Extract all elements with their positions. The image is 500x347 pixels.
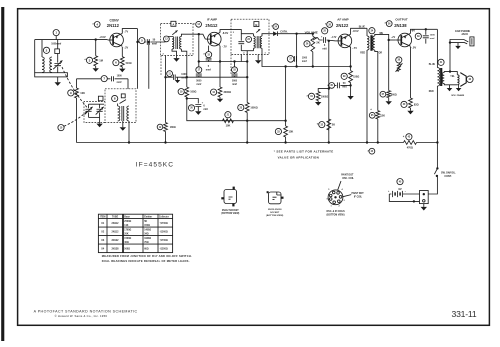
svg-text:2N112: 2N112 [205,23,218,28]
tuning capacitor C1A stem [57,40,59,73]
svg-text:-.7V: -.7V [352,46,357,50]
wire can B primary return [246,51,248,144]
label CATH [280,30,288,33]
svg-text:-.17V: -.17V [331,36,337,39]
svg-text:1000Ω: 1000Ω [250,107,257,110]
thermistor ref [396,57,402,63]
resistor R3 ref [68,90,74,96]
svg-text:5000: 5000 [196,81,202,83]
IF A primary winding [172,37,174,50]
osc coil secondary [127,106,129,121]
IF can A ref box [171,21,176,26]
label SPK FRAME [451,94,464,97]
label OR [379,53,383,55]
svg-text:mmf: mmf [181,78,186,80]
svg-text:9V: 9V [398,187,401,191]
socket 2N112 pins [221,187,235,207]
IF B secondary winding [260,36,262,48]
voltage IF collector [222,31,228,35]
label IF 455KC [136,161,174,168]
svg-text:†1700Ω: †1700Ω [160,240,168,242]
svg-text:X2: X2 [101,230,105,233]
ground R10 [315,101,321,106]
wire AF collector rail [351,28,367,34]
wire osc feed [127,79,129,89]
ground R15 [407,108,413,114]
wire output emitter drop [410,47,412,98]
volume pot ref [304,41,310,47]
label VOLUME [305,30,318,34]
resistor R1 value [99,58,103,62]
capacitor C1 value 1000mmf [51,44,61,46]
svg-text:50: 50 [343,82,346,85]
svg-text:SOCKET: SOCKET [270,212,280,214]
IF A core [176,37,178,50]
svg-text:mmf: mmf [232,84,237,86]
resistor R14 value [391,94,397,97]
capacitor C7 6mfd [195,105,201,107]
IF A primary entry [161,37,173,43]
resistor R17 value [407,147,413,150]
ground C7 [195,107,201,115]
resistor R4 180ohm [164,123,168,144]
IF A secondary top lead [181,34,198,36]
switch SW1 [428,167,438,194]
IF can A shield dash [160,56,162,77]
voltage conv emitter [124,30,129,33]
resistor R13 ref [369,107,375,118]
svg-text:Base: Base [124,217,130,219]
svg-text:-2.0V: -2.0V [99,35,106,39]
svg-text:+: + [388,190,390,193]
stray ref circle [367,148,374,154]
wire antenna top rail [35,39,108,41]
svg-text:B: B [255,23,257,27]
svg-text:500Ω: 500Ω [124,248,130,250]
wire interstage secondary return [375,50,378,111]
IF A primary ground lead [172,49,177,56]
table footnote 1 [102,254,192,258]
battery B1 ref [397,179,403,185]
resistor R9 value [289,130,294,134]
capacitor C3 value [152,39,157,46]
svg-text:PAINT DOT: PAINT DOT [352,192,365,195]
tuning capacitor C1A plates [54,64,61,66]
label PAINT DOT IF COIL [352,192,365,199]
wire secondary to speaker [444,70,457,74]
label IF AMP 2N112 [193,17,218,28]
resistor R2 ref [113,60,119,66]
label RED output [429,91,434,93]
capacitor C6 stem [203,46,208,58]
pin 1 IF A [163,54,165,56]
svg-text:*: * [193,22,195,27]
gang capacitor C1B arrow [85,107,93,115]
svg-text:†1700Ω: †1700Ω [160,223,168,225]
volume pot value [316,40,319,44]
volume pot wiper [313,37,319,40]
gang capacitor C1C stem [99,104,101,117]
svg-text:RED: RED [429,91,434,93]
capacitor C5b lead [233,60,235,77]
wire cap column [148,41,150,89]
voltage output base [391,37,396,39]
svg-text:mmf: mmf [152,43,157,46]
svg-text:+: + [321,35,323,38]
node volume top [312,33,314,35]
svg-text:-.7V: -.7V [124,30,129,33]
resistor R7 10K [223,119,234,123]
capacitor C5b 5000mmf [232,74,238,76]
svg-text:2N112: 2N112 [107,23,120,28]
osc slug arrow [120,100,127,104]
svg-text:2N138: 2N138 [394,23,407,28]
capacitor C6 ref [206,52,212,58]
svg-text:2N138: 2N138 [111,247,119,250]
socket 2N138 body [269,192,282,204]
capacitor C10 value [342,82,347,89]
coil socket pin numbers [327,188,346,207]
label BLUE interstage [359,27,366,29]
svg-text:-.2V: -.2V [391,37,396,39]
battery connector [420,191,429,204]
svg-text:A: A [172,23,174,27]
capacitor C12 value [430,35,436,40]
ground speaker frame [456,88,462,91]
svg-text:560Ω: 560Ω [391,94,397,97]
resistance table [98,214,172,252]
IF B cap lead [240,34,242,51]
capacitor C12 1000mmf [423,36,429,38]
wire battery lower [389,194,419,203]
wire can B cap exit [240,55,242,62]
resistor R4 value [170,126,176,129]
wire main bus [77,142,438,144]
svg-text:X3: X3 [101,239,105,242]
resistor R17 470 [404,141,417,145]
svg-text:2N112-2N138: 2N112-2N138 [268,209,282,211]
folder number 331-11 [452,309,477,319]
tuning gang ref [58,125,64,131]
transistor X2 IF amp [205,32,221,46]
ground R14 [386,98,392,105]
resistor R2 value [126,62,132,65]
svg-text:JACK: JACK [461,33,468,36]
svg-text:RED: RED [360,52,365,54]
IF A secondary winding [180,37,182,50]
svg-text:2N112: 2N112 [112,230,120,233]
resistor R5 value [190,91,196,94]
svg-text:X4: X4 [101,247,105,250]
capacitor C12 ref [415,33,421,39]
svg-text:2500Ω: 2500Ω [124,221,131,223]
svg-text:1700Ω: 1700Ω [124,230,131,232]
svg-text:*: * [203,52,205,57]
wire bypass rail [181,76,248,78]
resistor R2 [120,57,124,67]
capacitor C3 50mmf [147,39,149,45]
wire conv emitter drop [121,47,123,57]
svg-text:100Ω: 100Ω [190,91,196,94]
antenna coil L1 lead [41,40,43,57]
svg-text:2: 2 [163,54,165,56]
svg-text:-.2V: -.2V [124,46,129,49]
svg-text:82Ω: 82Ω [414,104,419,107]
osc coil core [122,106,124,121]
wire interstage primary return [366,50,368,144]
scanner edge bar [1,7,4,341]
capacitor C9 value [322,44,327,51]
label 2N112 socket [221,210,239,215]
resistor R8b 1000ohm [245,103,249,113]
wire conv top to rail [122,29,137,34]
svg-text:Collector: Collector [159,216,169,219]
capacitor C4b ref [167,71,173,77]
node output base [388,39,390,41]
resistor R12 value [332,123,335,127]
ground secondary [447,88,453,91]
svg-text:(BOTTOM VIEW): (BOTTOM VIEW) [266,215,283,217]
svg-text:1000Ω: 1000Ω [321,95,328,98]
svg-text:mmf: mmf [302,61,307,63]
svg-text:OSC. COIL: OSC. COIL [342,178,354,180]
resistor R11 ref [341,73,347,79]
thermistor element [396,63,403,72]
wire gang tops [89,103,105,105]
wire AVC line [186,97,286,122]
resistor R4 ref [157,124,163,130]
resistor R6 ref [211,89,217,95]
wire voice coil ground lead [458,85,460,88]
svg-text:1500Ω: 1500Ω [124,238,131,240]
svg-text:* SEE PARTS LIST FOR ALTERNATE: * SEE PARTS LIST FOR ALTERNATE [274,150,334,154]
svg-text:34Ω: 34Ω [144,232,149,235]
IF B coil ref [246,37,252,43]
svg-text:2N112 SOCKET: 2N112 SOCKET [222,210,239,212]
capacitor C5b value [232,81,238,87]
svg-text:11K: 11K [124,225,128,227]
voltage output emitter [411,45,416,49]
IF A coil ref [164,36,170,42]
ground can B shield [255,55,261,64]
capacitor C5b ref [232,67,238,73]
earphone jack body [470,37,474,46]
interstage secondary winding [373,36,375,50]
resistor R9 ref [275,128,281,134]
svg-text:MEASURED FROM JUNCTION OF R17: MEASURED FROM JUNCTION OF R17 AND ON-OFF… [102,254,192,258]
svg-text:40Ω: 40Ω [124,241,129,244]
ground R2 [119,67,125,72]
IF B secondary top lead [262,34,269,36]
svg-text:SPK. FRAME: SPK. FRAME [451,94,464,97]
svg-text:6: 6 [203,105,205,108]
svg-text:1M: 1M [99,58,103,62]
note alternate parts [274,150,334,160]
socket 2N138 pins [267,191,284,199]
capacitor C6 5mmf [206,58,212,61]
transistor X1 conv [108,33,124,47]
footer title [34,309,138,313]
svg-text:50: 50 [153,39,156,42]
svg-text:mmf: mmf [196,84,201,86]
svg-text:(BOTTOM VIEW): (BOTTOM VIEW) [327,215,345,217]
capacitor C4b value [181,74,187,80]
svg-text:VALUE OR APPLICATION: VALUE OR APPLICATION [278,156,319,160]
capacitor C4 wire [77,78,129,80]
svg-text:2N122: 2N122 [336,23,349,28]
capacitor C6 value [206,65,211,72]
label PAINT DOT OSC COIL [341,174,354,181]
resistor R10 [316,92,320,101]
osc ref box small [121,94,125,98]
interstage core [370,35,372,51]
wire interstage secondary top [375,34,389,40]
svg-text:mmf: mmf [430,38,435,40]
label 9V [398,187,401,191]
svg-text:150Ω: 150Ω [353,75,359,78]
svg-text:AF AMP: AF AMP [337,17,348,21]
resistor R5 ref [178,89,184,95]
svg-text:YEL: YEL [450,76,455,78]
svg-text:3300Ω: 3300Ω [224,91,232,94]
svg-text:2N112: 2N112 [112,222,120,225]
IF transformer B dashed can [231,19,269,54]
gang capacitor C1B stem [88,104,90,117]
IF B entry [231,30,254,34]
svg-text:(BOTTOM VIEW): (BOTTOM VIEW) [221,213,239,215]
pin marks can B [233,32,267,55]
speaker ref [467,76,474,83]
svg-text:60Ω: 60Ω [144,248,149,250]
svg-text:DUAL READINGS INDICATE REVERSA: DUAL READINGS INDICATE REVERSAL OF METER… [102,259,190,263]
capacitor C9 6mfd [321,35,326,43]
capacitor C10 50mfd [337,83,339,89]
label OUTPUT 2N138 [384,17,408,28]
wire jack feed [450,40,468,72]
IF B bottom wire [241,50,253,52]
capacitor C4 ref [101,76,107,82]
svg-text:1: 1 [265,52,267,54]
capacitor C5a 5000mmf [196,74,202,76]
interstage primary lead [366,28,368,36]
resistor R15 ref [401,101,407,107]
antenna coil L1 winding b [50,57,52,72]
wire AF emitter drop [349,47,351,68]
svg-text:CONV: CONV [110,18,120,22]
osc ref box [98,96,103,101]
wire bus to switch [436,141,438,168]
resistor R3 value [80,91,85,95]
resistor R7 value [226,124,231,128]
capacitor C4b branch [166,77,182,80]
capacitor C5a ref [196,67,202,73]
svg-text:OR: OR [379,53,383,55]
voltage conv collector [124,46,129,49]
capacitor C4 value [117,75,123,84]
capacitor C7 plus [202,101,204,104]
wire IF base [199,34,206,39]
svg-text:1: 1 [331,206,333,208]
resistor R13 value [380,114,385,118]
resistor R17 ref [403,134,412,140]
pin 3 IF A [190,54,192,56]
capacitor C4b 1000mmf [174,75,176,80]
resistor R12 ref [317,122,325,128]
svg-text:15K: 15K [289,130,294,134]
ground battery [421,204,427,211]
gang dash link [62,67,88,108]
svg-text:10K: 10K [226,124,231,128]
speaker voice coil [457,75,459,85]
svg-text:1000mmf: 1000mmf [51,44,61,46]
IF can B ref box [254,22,259,27]
diode M1 ref [271,24,278,30]
gang capacitor C1B plates [85,109,91,111]
capacitor C1 ref [53,29,59,39]
svg-text:1000: 1000 [302,57,308,59]
svg-text:ITEM: ITEM [100,217,106,219]
IF B primary winding [254,34,256,51]
resistor R11 column [349,67,353,97]
capacitor C5a value [196,81,202,87]
svg-text:70Ω: 70Ω [144,242,149,244]
capacitor C3 wire [138,41,161,43]
resistor R13 12K [376,111,380,144]
svg-text:2N122: 2N122 [111,239,119,242]
diode M1 [269,31,313,36]
svg-text:© Howard W. Sams & Co., Inc. 1: © Howard W. Sams & Co., Inc. 1956 [55,314,108,318]
svg-text:470Ω: 470Ω [407,147,413,150]
resistor R3 column [75,79,79,143]
node AVC join [284,120,286,122]
osc if coil socket view [328,190,343,205]
resistor R11 value [353,75,359,78]
IF B secondary bottom lead [261,48,263,54]
resistor R10 ref [306,93,314,99]
voltage -2.0V conv base [99,35,106,39]
IF A secondary bottom lead [181,49,186,57]
wire can A return column [164,56,166,123]
svg-text:2K: 2K [332,123,335,127]
label CONV 2N112 [92,18,119,28]
svg-text:mfd: mfd [342,86,347,89]
svg-text:-.7V: -.7V [222,45,227,49]
svg-text:1000: 1000 [181,74,187,76]
label SW ON VOL CONT [441,171,456,178]
svg-text:-8.3V: -8.3V [222,31,228,35]
svg-text:VOLUME: VOLUME [305,30,318,34]
svg-text:510Ω: 510Ω [126,62,132,65]
voltage IF emitter [222,45,227,49]
capacitor C4 1000mmf [112,76,114,81]
svg-text:CATH.: CATH. [280,30,288,33]
svg-text:1000: 1000 [430,35,436,37]
capacitor C7 ref [188,105,194,111]
svg-text:5K: 5K [144,221,147,223]
capacitor C9 wire [319,39,336,42]
capacitor C3 ref [139,38,145,44]
interstage primary winding [367,36,369,50]
IF A slug arrow [172,30,177,34]
capacitor C8 1000mmf [294,56,308,63]
svg-text:2: 2 [339,206,341,208]
label 2N138 socket [266,209,283,217]
svg-text:PAINT DOT: PAINT DOT [341,174,354,177]
wire output base [389,39,396,41]
capacitor inside can B [238,42,244,44]
svg-text:†1350Ω: †1350Ω [160,248,168,250]
ground R1 [93,66,99,72]
